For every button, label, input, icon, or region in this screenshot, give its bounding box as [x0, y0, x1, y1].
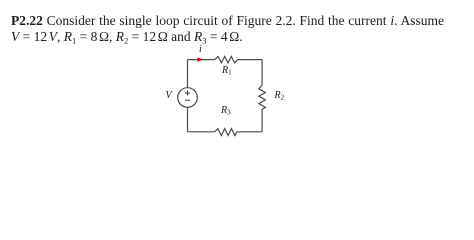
circuit figure	[0, 0, 474, 158]
wire: bottom segment right of R3	[237, 131, 262, 133]
resistor R2	[259, 85, 266, 109]
label V	[166, 90, 172, 101]
label i	[199, 44, 202, 55]
label R1	[222, 65, 232, 76]
minus sign inside source	[185, 99, 190, 101]
wire: left vertical bottom segment (source bottom to bottom-left corner)	[187, 107, 189, 132]
resistor R3	[215, 129, 237, 136]
wire: right vertical bottom segment	[261, 109, 263, 132]
wire: left vertical top segment (source top to top-left corner)	[187, 60, 189, 88]
label R3	[221, 105, 231, 116]
resistor R1	[215, 56, 238, 62]
wire: top segment left of R1	[188, 59, 215, 61]
wire: top segment right of R1	[238, 59, 262, 61]
wire: bottom segment left of R3	[188, 131, 215, 133]
label R2	[275, 90, 285, 101]
current arrow (red)	[197, 57, 203, 61]
plus sign inside source	[185, 91, 190, 96]
wire: right vertical top segment	[261, 60, 263, 85]
voltage source V (circle)	[178, 88, 198, 108]
